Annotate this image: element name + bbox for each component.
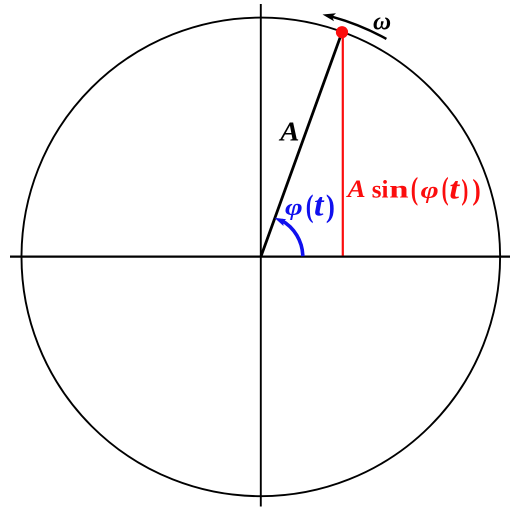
svg-text:): ) bbox=[472, 172, 480, 206]
svg-text:ω: ω bbox=[373, 9, 391, 36]
svg-text:): ) bbox=[326, 190, 335, 224]
svg-text:(: ( bbox=[306, 189, 314, 224]
svg-text:t: t bbox=[449, 172, 460, 205]
svg-text:s: s bbox=[372, 176, 382, 203]
svg-text:A: A bbox=[278, 117, 299, 147]
svg-text:φ: φ bbox=[285, 194, 303, 220]
svg-text:(: ( bbox=[442, 171, 449, 206]
svg-text:i: i bbox=[382, 176, 389, 203]
svg-text:n: n bbox=[389, 175, 409, 203]
svg-text:φ: φ bbox=[421, 177, 439, 204]
svg-text:A: A bbox=[345, 175, 365, 203]
svg-text:): ) bbox=[461, 173, 468, 207]
svg-text:(: ( bbox=[411, 171, 418, 206]
